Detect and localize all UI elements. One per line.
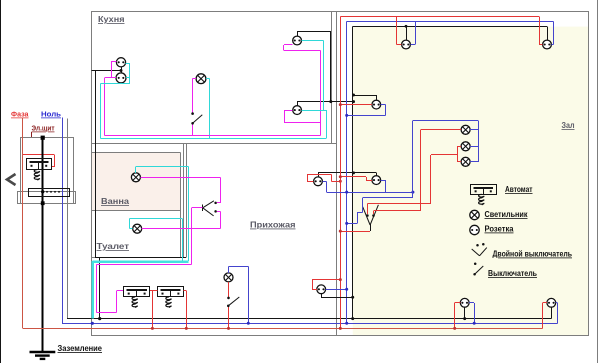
wire hallway socket neutral (blue) bbox=[322, 181, 326, 192]
socket XS12 зал bottom 2 bbox=[547, 298, 556, 307]
wire bathroom lamp neutral (cyan) bbox=[136, 166, 189, 261]
node phase riser tap hallway socket bbox=[339, 180, 342, 183]
svg-text:Ноль: Ноль bbox=[41, 110, 61, 119]
wire XS6 ground (black) bbox=[406, 26, 408, 40]
svg-text:Выключатель: Выключатель bbox=[488, 269, 537, 278]
socket XS3 kitchen right upper bbox=[293, 36, 302, 45]
wire lighting phase return to breaker (magenta) bbox=[96, 264, 191, 312]
node XS8 neutral tap bbox=[345, 114, 348, 117]
wire kitchen phase bus (magenta) bbox=[105, 135, 321, 137]
socket XS4 kitchen right lower bbox=[293, 106, 302, 115]
node XS8 ground tap bbox=[352, 94, 355, 97]
node riser-bus junctions bbox=[339, 317, 354, 330]
circuit breaker main (Автомат) in panel bbox=[27, 159, 52, 170]
switch SA1 kitchen bbox=[191, 112, 202, 124]
node neutral bus tap bbox=[91, 322, 94, 325]
socket XS10 зал lower-left bbox=[317, 285, 326, 294]
wire XS12 phase (red) bbox=[543, 303, 547, 329]
wire kitchen lamp neutral drop (cyan) bbox=[206, 79, 210, 139]
node XS10 neutral tap bbox=[345, 288, 348, 291]
wire XS9 neutral (blue) bbox=[326, 180, 413, 192]
wire SA4 feed (red) bbox=[340, 231, 370, 233]
wire XS7 phase (red) bbox=[539, 17, 543, 45]
panel enclosure Эл.щит box bbox=[21, 138, 74, 204]
wire зал lights phase group2 (red) bbox=[431, 146, 462, 203]
wire XS7 neutral (blue) bbox=[551, 21, 553, 44]
svg-text:Зал: Зал bbox=[562, 121, 575, 130]
circuit breaker QF1 (Автомат) bbox=[124, 287, 150, 297]
wire toilet lamp neutral (cyan) bbox=[129, 218, 182, 261]
switch SA2 double switch bath/toilet bbox=[203, 201, 217, 216]
wire black ground bus (bottom) bbox=[67, 318, 551, 320]
lamp EL7 зал light 3 bbox=[461, 157, 470, 166]
wire kitchen right sockets ground (black) bbox=[297, 31, 353, 106]
wire red phase bus (bottom) bbox=[23, 328, 543, 330]
wire kitchen neutral left (cyan) bbox=[101, 63, 130, 138]
socket XS9 зал left wall lower bbox=[372, 176, 381, 185]
wire XS11 neutral (blue) bbox=[469, 303, 474, 324]
svg-text:Фаза: Фаза bbox=[11, 110, 29, 119]
wire XS10 ground (black) bbox=[321, 294, 353, 298]
lamp EL4 hallway light bbox=[224, 273, 233, 282]
node lights neutral junction bbox=[411, 191, 414, 194]
room Зал floor fill bbox=[353, 27, 588, 336]
wire ground/neutral return (gray) panel right side bbox=[67, 119, 69, 319]
wire toilet lamp phase (magenta) bbox=[142, 228, 221, 230]
wall bathroom top bbox=[91, 152, 180, 154]
socket XS5 hallway bbox=[314, 177, 323, 186]
wire Эл.щит leader bbox=[31, 132, 33, 137]
wire breaker phase links (red) bbox=[150, 291, 187, 329]
wire kitchen lamp phase drop (magenta) bbox=[193, 79, 197, 136]
wire XS9 ground drop (black) bbox=[376, 173, 378, 176]
svg-text:Кухня: Кухня bbox=[98, 15, 125, 24]
node XS9 neutral tap bbox=[345, 191, 348, 194]
wire kitchen neutral bus (cyan) bbox=[101, 138, 327, 140]
lamp EL3 toilet light bbox=[133, 224, 142, 233]
svg-text:Туалет: Туалет bbox=[97, 242, 130, 251]
svg-text:Двойной выключатель: Двойной выключатель bbox=[493, 250, 573, 259]
wire hallway socket ground (black) bbox=[318, 173, 376, 177]
node XS10 ground tap bbox=[351, 296, 354, 299]
socket XS6 зал top-left bbox=[402, 40, 411, 49]
node XS10 phase tap bbox=[339, 278, 342, 281]
wire SA4 outputs (red) bbox=[367, 203, 431, 214]
svg-text:Эл.щит: Эл.щит bbox=[32, 124, 55, 133]
room Ванна floor fill bbox=[91, 152, 180, 210]
node panel top junction bbox=[41, 136, 45, 140]
node XS11 ground tap bbox=[463, 317, 466, 320]
wire зал phase riser+top run (red) bbox=[340, 17, 539, 329]
legend lamp symbol bbox=[470, 210, 479, 219]
wire kitchen phase left (magenta) bbox=[105, 62, 117, 136]
socket XS8 зал left wall upper bbox=[372, 100, 381, 109]
wire SA4 neutral step (blue) bbox=[347, 198, 413, 224]
lamp EL6 зал light 2 bbox=[461, 142, 470, 151]
legend breaker symbol bbox=[471, 185, 497, 195]
legend switch symbol bbox=[473, 262, 483, 275]
wire phase into main breaker (red) bbox=[23, 155, 55, 167]
node XS11 phase tap bbox=[453, 327, 456, 330]
wire XS6 phase (red) bbox=[396, 17, 401, 45]
wire phase feed (red) from Фаза down left side bbox=[22, 118, 24, 329]
wire XS10 phase (red) bbox=[312, 280, 340, 290]
legend socket symbol bbox=[470, 225, 479, 234]
legend double switch symbol bbox=[472, 243, 487, 256]
node breaker drops on phase bus bbox=[151, 327, 188, 330]
node XS8 phase tap bbox=[339, 103, 342, 106]
node XS9 phase tap bbox=[339, 175, 342, 178]
wire XS8 ground (black) bbox=[354, 95, 377, 100]
node зал ground wire junction bbox=[352, 100, 355, 103]
wire зал lights neutral (blue) bbox=[413, 121, 479, 198]
wall kitchen right / зал divider bbox=[332, 11, 337, 336]
earth ground symbol Заземление bbox=[30, 352, 56, 359]
wire XS11 phase (red) bbox=[455, 303, 461, 329]
wire kitchen right phase loop (magenta) bbox=[284, 45, 321, 136]
wire зал ground riser+top run (black) bbox=[353, 26, 548, 318]
svg-text:Заземление: Заземление bbox=[58, 344, 103, 353]
node hallway phase tap bbox=[227, 327, 230, 330]
chevron UI arrow bbox=[7, 174, 16, 185]
wire XS11 ground (black) bbox=[464, 307, 466, 318]
wire double switch common feed (magenta) bbox=[192, 208, 203, 265]
node kitchen right ground junction bbox=[329, 100, 332, 103]
wire XS6 neutral (blue) bbox=[410, 21, 415, 44]
wall bathroom/toilet divider bbox=[91, 210, 180, 212]
wall toilet bottom bbox=[91, 257, 186, 259]
wire XS10 neutral (blue) bbox=[326, 289, 347, 291]
wire hallway lamp neutral (blue) bbox=[229, 267, 249, 324]
lamp EL1 kitchen ceiling light bbox=[196, 74, 206, 84]
svg-text:Прихожая: Прихожая bbox=[250, 221, 296, 230]
node hallway neutral tap bbox=[247, 322, 250, 325]
circuit breaker QF2 (Автомат) bbox=[158, 287, 184, 297]
wire XS9 phase (red) bbox=[340, 177, 372, 181]
decor bbox=[0, 0, 2, 363]
node panel bottom junction bbox=[41, 201, 45, 205]
switch SA3 hallway bbox=[227, 297, 239, 308]
wire XS8 neutral (blue) bbox=[347, 105, 386, 116]
node kitchen socket tee bbox=[120, 69, 123, 72]
wall kitchen bottom bbox=[91, 143, 336, 145]
terminal strip (клеммник) bbox=[29, 189, 70, 197]
wire зал neutral riser+top run (blue) bbox=[347, 21, 554, 323]
socket XS7 зал top-right bbox=[543, 40, 552, 49]
wire double switch outputs (magenta) bbox=[217, 177, 221, 228]
panel lower terminal box bbox=[18, 192, 76, 204]
wire XS12 neutral (blue) bbox=[556, 303, 558, 324]
svg-text:Светильник: Светильник bbox=[485, 210, 528, 219]
wire hallway socket phase loop (red) bbox=[307, 174, 340, 181]
svg-text:Ванна: Ванна bbox=[101, 197, 129, 206]
wire XS8 phase (red) bbox=[340, 104, 372, 106]
wire bathroom lamp phase (magenta) bbox=[140, 177, 220, 179]
wire main earth conductor (thick black) bbox=[41, 137, 43, 352]
wire neutral feed (blue) from Ноль down left side bbox=[62, 118, 64, 324]
svg-text:Розетка: Розетка bbox=[485, 225, 515, 234]
wire kitchen ground down wall (black) bbox=[95, 71, 186, 319]
wire kitchen right neutral loop (cyan) bbox=[302, 41, 327, 139]
wire blue neutral bus (bottom) bbox=[62, 323, 558, 325]
node SA4 feed tap bbox=[339, 230, 342, 233]
wire XS7 ground (black) bbox=[547, 26, 549, 40]
socket XS1 kitchen left upper bbox=[116, 58, 125, 67]
wire hallway lamp phase (red) bbox=[228, 282, 230, 329]
node ground bus junction bbox=[98, 317, 101, 320]
wall apartment outline bbox=[91, 11, 589, 336]
node SA4 neutral tap bbox=[345, 222, 348, 225]
wire зал lights phase group1 (red) bbox=[420, 130, 461, 211]
node terminal strip junction bbox=[41, 190, 44, 193]
svg-text:Автомат: Автомат bbox=[505, 185, 533, 194]
socket XS11 зал bottom 1 bbox=[460, 298, 469, 307]
wire XS12 ground (black) bbox=[551, 307, 553, 318]
node XS6 ground tap bbox=[405, 25, 408, 28]
switch SA4 зал double switch bbox=[363, 205, 379, 231]
socket XS2 kitchen left lower bbox=[116, 73, 126, 83]
wall bathroom/toilet right + hallway left bbox=[181, 143, 187, 257]
node XS11 neutral tap bbox=[473, 322, 476, 325]
wire lighting neutral return under toilet (cyan) bbox=[93, 261, 189, 318]
node XS9 ground tap bbox=[352, 171, 355, 174]
wire kitchen sockets ground (black) bbox=[92, 67, 122, 73]
lamp EL2 bathroom light bbox=[131, 173, 140, 182]
lamp EL5 зал light 1 bbox=[461, 125, 470, 134]
